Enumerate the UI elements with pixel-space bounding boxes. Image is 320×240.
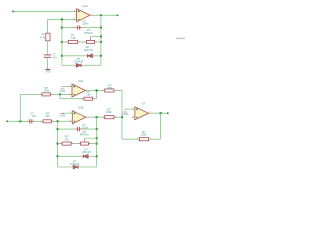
capacitor C? 4u7: [26, 119, 35, 123]
wire cap feedback row: [62, 27, 101, 29]
resistor R? 1.5k: [81, 97, 95, 100]
node U2C output end: [167, 112, 169, 114]
junction stage2 input corner: [19, 120, 21, 122]
svg-text:130k: 130k: [107, 86, 113, 90]
wire s2 res row: [58, 143, 97, 145]
svg-text:22k: 22k: [45, 114, 50, 118]
svg-text:U?: U?: [142, 102, 146, 106]
wire U2B com stub: [62, 112, 73, 114]
resistor R? 27k stage2: [59, 142, 73, 145]
junction s2 right diode row: [95, 155, 97, 157]
svg-text:4u7: 4u7: [32, 114, 37, 118]
wire s2 cap row: [58, 128, 97, 130]
wire 130k to corner: [114, 90, 122, 92]
junction right bus cap row: [100, 26, 102, 28]
wire U2A fb up: [96, 91, 98, 99]
svg-text:100n: 100n: [82, 22, 88, 26]
diode D? 1N4148 stage1 lower: [76, 64, 81, 68]
resistor R? 7.5k stage1: [66, 40, 80, 43]
net label COM U2B: [59, 114, 65, 118]
wire stage2 left bus: [57, 121, 59, 167]
svg-text:100k: 100k: [106, 110, 112, 114]
wire stage2 input row: [7, 120, 72, 122]
svg-text:1N4148: 1N4148: [83, 48, 93, 52]
svg-text:100k: 100k: [43, 88, 49, 92]
junction s2 left cap row: [56, 128, 58, 130]
wire U2C fb vertical: [160, 113, 162, 139]
junction s2 left res row: [56, 142, 58, 144]
ground GND stage1: [45, 70, 51, 74]
resistor R? 4.7k: [46, 33, 50, 41]
wire U2A fb row: [60, 98, 97, 100]
potentiometer R? RPW16 stage2: [78, 138, 97, 145]
text fragment right edge: [176, 38, 185, 40]
resistor R? 100k stage2 in: [39, 93, 53, 96]
resistor R? 100k mid: [102, 116, 116, 119]
node input wire end: [12, 10, 14, 12]
junction s2 right cap row: [95, 128, 97, 130]
svg-text:COM: COM: [60, 90, 66, 93]
wire U2B output row: [89, 116, 122, 118]
svg-text:COM: COM: [122, 113, 128, 116]
svg-text:1N4148: 1N4148: [74, 60, 84, 64]
svg-text:47n: 47n: [52, 55, 57, 59]
junction left bus resistor row: [61, 41, 63, 43]
wire stage2 input vertical: [19, 94, 21, 121]
wire stage2 plus row: [20, 93, 72, 95]
net label COM U2C: [122, 112, 128, 116]
junction U2B output: [95, 116, 97, 118]
potentiometer R? RPW16 stage1: [84, 37, 101, 44]
wire U2C output row: [151, 112, 168, 114]
svg-text:GND: GND: [45, 71, 51, 74]
diode D? 1N4148 stage2 lower: [73, 165, 78, 169]
junction stage2 input to U2B: [56, 120, 58, 122]
svg-text:1N4148: 1N4148: [81, 150, 91, 154]
wire right output bus stage1: [100, 15, 102, 65]
resistor R? 100k fb: [137, 138, 151, 141]
wire U1A output: [93, 14, 118, 16]
junction U1A output bus: [100, 14, 102, 16]
svg-text:RPW16: RPW16: [84, 32, 93, 35]
wire ground leg vertical middle: [47, 41, 49, 54]
wire s2 diode row 1: [58, 155, 97, 157]
svg-text:U2B: U2B: [78, 106, 84, 110]
diode D? 1N4148 stage1 upper: [88, 54, 93, 58]
wire left feedback bus stage1: [61, 19, 63, 65]
junction sum bus plus row: [121, 116, 123, 118]
svg-text:100n: 100n: [82, 126, 88, 130]
node stage2 input end: [6, 120, 8, 122]
capacitor C? 47n: [44, 55, 51, 57]
junction U2A plus input: [59, 93, 61, 95]
junction U2A output: [95, 89, 97, 91]
wire s2 diode row 2: [58, 166, 97, 168]
wire minus-input horizontal: [48, 18, 77, 20]
svg-text:27k: 27k: [64, 137, 69, 141]
op-amp U2C: [132, 102, 152, 120]
capacitor C? 100n stage1: [74, 26, 83, 30]
junction left bus diode row: [61, 55, 63, 57]
svg-text:U1A: U1A: [82, 4, 88, 8]
junction left bus minus input: [61, 18, 63, 20]
wire U2A output row: [88, 90, 103, 92]
wire U2A fb vertical: [59, 94, 61, 98]
op-amp U2B: [69, 106, 89, 124]
junction s2 right res row: [95, 142, 97, 144]
resistor R? 130k: [102, 89, 116, 92]
wire stage2 right bus: [96, 117, 98, 167]
diode D? 1N4148 stage2 upper: [83, 155, 88, 159]
resistor R? 22k input: [40, 120, 54, 123]
op-amp U2A: [69, 79, 89, 97]
wire resistor feedback row: [62, 41, 101, 43]
svg-text:4.7k: 4.7k: [40, 36, 46, 40]
svg-text:7.5k: 7.5k: [70, 36, 76, 40]
svg-text:100k: 100k: [141, 133, 147, 137]
junction s2 right wiper row: [95, 137, 97, 139]
svg-text:1N4148: 1N4148: [70, 162, 80, 166]
wire ground leg vertical lower: [47, 57, 49, 69]
junction s2 left diode row: [56, 155, 58, 157]
wire U2A com stub: [61, 86, 72, 88]
junction right bus resistor row: [100, 41, 102, 43]
svg-text:COM: COM: [59, 115, 65, 118]
wire sum bus vertical: [121, 91, 123, 140]
wire U2C com stub: [124, 108, 135, 110]
net label COM U2A: [60, 89, 66, 93]
capacitor C? 100n stage2: [74, 127, 83, 131]
junction left bus cap row: [61, 26, 63, 28]
wire diode row 2 stage1: [62, 64, 101, 66]
junction U2C output fb: [159, 112, 161, 114]
junction right bus diode row: [100, 55, 102, 57]
svg-text:RPW16: RPW16: [80, 134, 89, 137]
svg-text:U2A: U2A: [78, 79, 84, 83]
wire ground leg vertical upper: [47, 19, 49, 33]
wire U2C fb row: [122, 138, 161, 140]
junction right bus wiper row: [100, 35, 102, 37]
svg-text:1.5k: 1.5k: [86, 93, 92, 97]
node U1A output end: [117, 14, 119, 16]
wire input to U1A + input: [13, 10, 77, 12]
op-amp U1A: [73, 4, 93, 22]
wire diode row 1 stage1: [62, 55, 101, 57]
